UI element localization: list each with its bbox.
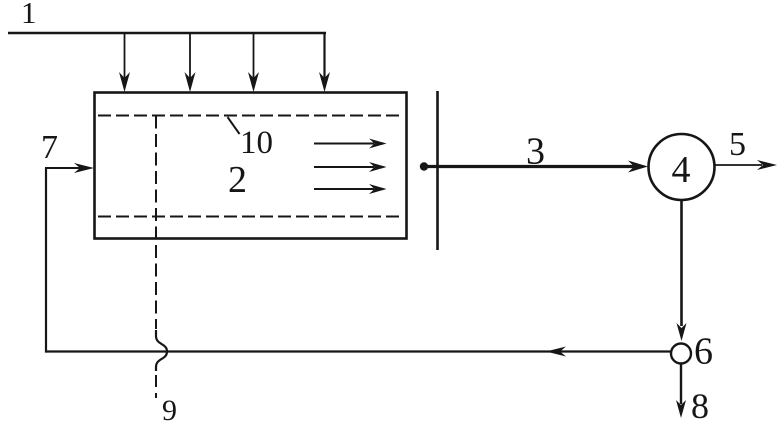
- svg-text:3: 3: [526, 131, 545, 173]
- flow arrow a inside box: [314, 139, 387, 149]
- svg-text:9: 9: [162, 394, 177, 427]
- node: tap dot on line 3: [420, 162, 428, 170]
- dashed line 9 lower tail: [155, 375, 157, 398]
- svg-text:1: 1: [21, 0, 37, 30]
- wire: top feed line 1: [8, 32, 326, 35]
- svg-text:4: 4: [672, 149, 691, 191]
- flow arrow b inside box: [314, 162, 387, 172]
- svg-text:6: 6: [694, 331, 713, 373]
- crossing jog of line 9 over feedback wire: [156, 330, 167, 371]
- svg-text:7: 7: [41, 129, 58, 166]
- block 2: furnace chamber box: [95, 93, 407, 239]
- leader tick for label 10: [228, 117, 240, 134]
- wire 3 to summator: [424, 161, 648, 173]
- wire: drop arrow b from line 1 into furnace: [185, 33, 196, 92]
- svg-text:5: 5: [729, 126, 746, 163]
- arrowhead on feedback wire (pointing left): [546, 347, 566, 357]
- wire 5 output: [715, 160, 778, 170]
- svg-text:8: 8: [691, 386, 709, 426]
- wire 7 into furnace: [45, 163, 94, 173]
- wire: feedback vertical up on left: [45, 168, 47, 353]
- wire: feedback horizontal from node 6 to left: [46, 350, 671, 352]
- dashed layer line bottom inside box: [98, 216, 404, 218]
- flow arrow c inside box: [314, 184, 387, 194]
- wire 8 output down: [676, 364, 686, 418]
- wire: drop arrow c from line 1 into furnace: [248, 33, 259, 92]
- dashed boundary line 9 (vertical): [155, 116, 157, 330]
- screen bar (vertical grid): [436, 91, 439, 250]
- block 4: summator circle: [649, 134, 715, 200]
- wire: drop arrow a from line 1 into furnace: [119, 33, 130, 92]
- dashed layer line top inside box: [98, 115, 404, 117]
- wire from summator down to branch node 6: [677, 200, 687, 341]
- wire: drop arrow d from line 1 into furnace: [319, 33, 330, 92]
- svg-text:10: 10: [240, 125, 273, 161]
- node 6: branch point circle: [671, 344, 691, 364]
- svg-text:2: 2: [228, 159, 247, 201]
